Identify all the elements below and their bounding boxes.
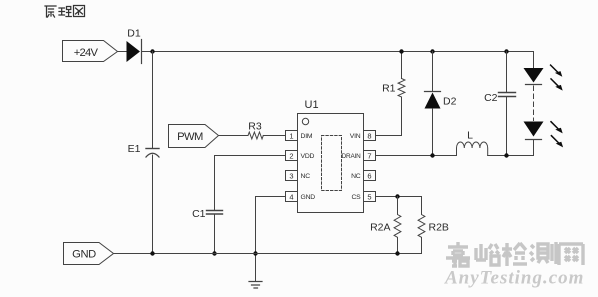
svg-text:DIM: DIM (301, 133, 313, 140)
node C2 top (504, 49, 508, 53)
svg-text:E1: E1 (128, 143, 141, 155)
wire LED column top (533, 52, 535, 69)
pin 8 (364, 131, 376, 141)
svg-text:VIN: VIN (350, 133, 361, 140)
svg-text:3: 3 (289, 171, 293, 180)
diode D1 (127, 41, 141, 62)
node D2 bottom (430, 153, 434, 157)
diode D2 (425, 91, 441, 93)
LED arrow (551, 65, 563, 77)
port tag PWM (169, 125, 219, 148)
svg-text:4: 4 (289, 192, 293, 201)
node E1 ground (150, 251, 154, 255)
pin 2 (286, 151, 298, 161)
wire (263, 135, 285, 137)
resistor R1 (398, 79, 405, 98)
pin1 marker circle (302, 118, 308, 124)
svg-text:5: 5 (367, 192, 371, 201)
wire pin4 GND down (256, 197, 286, 282)
svg-text:GND: GND (72, 249, 96, 261)
pin 6 (364, 171, 376, 181)
op-amp U1 body (298, 114, 364, 213)
svg-text:GND: GND (301, 194, 316, 201)
svg-text:7: 7 (367, 151, 371, 160)
svg-text:NC: NC (301, 173, 311, 180)
pin 3 (286, 171, 298, 181)
wire R1 to top rail (401, 52, 403, 79)
svg-text:R2B: R2B (429, 222, 449, 234)
pin 7 (364, 151, 376, 161)
capacitor C2 (499, 93, 516, 97)
wire ground rail (114, 253, 398, 255)
svg-text:C2: C2 (484, 92, 498, 104)
wire D2 column upper (432, 52, 434, 92)
capacitor E1 (146, 148, 159, 150)
wire pin5 CS to R2 pair (376, 196, 422, 198)
port tag GND (64, 243, 114, 265)
svg-text:1: 1 (289, 131, 293, 140)
wire D2 column lower (432, 109, 434, 156)
svg-text:2: 2 (289, 151, 293, 160)
node D2 top (430, 49, 434, 53)
svg-text:R2A: R2A (370, 222, 390, 234)
LED DS1 (524, 68, 544, 83)
svg-text:AnyTesting.com: AnyTesting.com (444, 268, 584, 289)
svg-text:R1: R1 (382, 82, 396, 94)
watermark 嘉峪检测网 (446, 242, 583, 266)
wire LED column bottom (533, 140, 535, 156)
port tag +24V (63, 41, 118, 62)
wire (118, 51, 127, 53)
node R2A top (395, 194, 399, 198)
node R1 top (399, 49, 403, 53)
pin 5 (364, 192, 376, 202)
capacitor C1 (207, 211, 223, 215)
node junction after D1 (150, 49, 154, 53)
node C1 ground (212, 251, 216, 255)
LED DS2 (524, 122, 544, 137)
resistor R2B (398, 197, 425, 254)
svg-text:6: 6 (367, 171, 371, 180)
LED arrow (551, 122, 563, 134)
dashed internal block (322, 136, 342, 191)
resistor R3 (248, 132, 263, 139)
resistor R2A (394, 197, 401, 254)
LED arrow (551, 79, 563, 91)
svg-text:D1: D1 (127, 28, 141, 40)
svg-text:+24V: +24V (74, 47, 99, 59)
svg-text:D2: D2 (443, 95, 457, 107)
svg-text:L: L (467, 129, 473, 141)
svg-text:PWM: PWM (177, 131, 203, 143)
svg-text:NC: NC (351, 173, 361, 180)
node R2 bottom (395, 251, 399, 255)
svg-text:C1: C1 (192, 208, 206, 220)
svg-text:CS: CS (351, 194, 361, 201)
wire C1 to ground rail (214, 214, 216, 254)
pin 1 (286, 131, 298, 141)
inductor L (457, 142, 488, 156)
wire inductor to LED return (488, 155, 534, 157)
svg-text:VDD: VDD (301, 153, 315, 160)
node C2 bottom (504, 153, 508, 157)
wire C2 column upper (506, 52, 508, 93)
svg-text:DRAIN: DRAIN (342, 153, 361, 160)
svg-text:8: 8 (367, 131, 371, 140)
ground symbol (249, 282, 262, 289)
node gnd junction (253, 251, 257, 255)
svg-text:R3: R3 (248, 120, 262, 132)
wire pin2 VDD to C1 (215, 156, 286, 211)
wire pin8 VIN to R1 (376, 97, 402, 136)
wire dashed LED string (533, 86, 535, 121)
pin 4 (286, 192, 298, 202)
wire C2 column lower (506, 97, 508, 156)
title 原理图 (45, 6, 85, 18)
wire top rail (142, 51, 534, 53)
wire (219, 135, 249, 137)
wire E1 column upper (152, 52, 154, 149)
svg-text:U1: U1 (305, 99, 319, 111)
wire E1 column lower (152, 155, 154, 254)
wire pin7 DRAIN to inductor (376, 155, 457, 157)
LED arrow (551, 136, 563, 148)
